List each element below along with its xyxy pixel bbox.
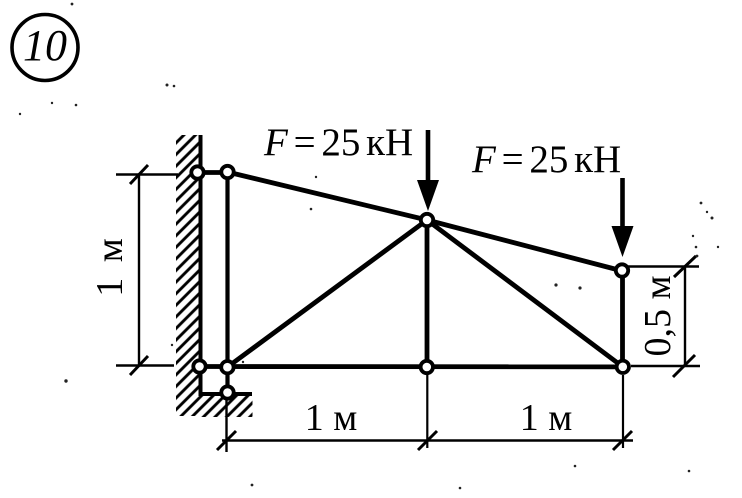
truss member: right vertical C-F (620, 271, 625, 367)
node B (421, 214, 433, 226)
svg-text:10: 10 (23, 21, 67, 70)
ledge hatch band (201, 394, 253, 417)
node A1 (191, 166, 203, 178)
truss member: top chord B-C (427, 220, 623, 271)
support link D2-D3 (225, 367, 229, 393)
svg-text:0,5 м: 0,5 м (637, 275, 679, 356)
dimension 0.5m right: extension top (622, 265, 699, 267)
dimension 1m left: dimension line (138, 175, 140, 366)
node D2 (221, 361, 233, 373)
wall edge line (199, 135, 203, 394)
force arrow F2 shaft (620, 178, 625, 232)
dimension bottom: extension from E (426, 375, 428, 448)
node D3 (221, 386, 233, 398)
node E (421, 361, 433, 373)
dimension 1m left: top tick (130, 165, 148, 184)
dimension 1m left: extension bottom (116, 364, 174, 366)
svg-text:F = 25 кН: F = 25 кН (263, 121, 413, 164)
dimension 0.5m right: extension bottom (631, 365, 700, 367)
dimension 1m left: extension top (116, 173, 178, 175)
truss member: top chord A2-B (228, 172, 428, 220)
truss member: middle vertical B-E (425, 220, 430, 367)
node F (617, 361, 629, 373)
wall hatch band (176, 135, 201, 416)
truss member: top link A1-A2 (197, 170, 228, 175)
ledge top line (199, 392, 253, 396)
truss member: left vertical A2-D2 (225, 172, 229, 367)
force arrow F1 head (417, 180, 439, 211)
force arrow F1 shaft (426, 130, 431, 185)
dimension 0.5m right: bottom tick (673, 355, 695, 377)
node C (616, 264, 628, 276)
problem number badge circle (12, 15, 78, 81)
node D1 (193, 360, 205, 372)
node A2 (221, 166, 233, 178)
dimension 0.5m right: dimension line (684, 267, 686, 368)
svg-text:F = 25 кН: F = 25 кН (471, 138, 621, 181)
dimension 0.5m right: top tick (674, 256, 696, 277)
svg-text:1 м: 1 м (305, 397, 358, 439)
dimension bottom: dimension line (222, 439, 633, 442)
svg-text:1 м: 1 м (89, 238, 131, 297)
dimension 1m left: bottom tick (130, 356, 148, 375)
truss member: diagonal B-F (427, 220, 623, 367)
svg-text:1 м: 1 м (520, 397, 573, 439)
force arrow F2 head (612, 226, 634, 257)
dimension bottom: extension from support (225, 396, 227, 452)
dimension bottom: tick middle (418, 431, 437, 450)
dimension bottom: extension from F (622, 375, 624, 448)
truss member: diagonal D2-B (228, 220, 428, 367)
truss member: bottom chord (199, 364, 623, 369)
dimension bottom: tick right (613, 431, 632, 450)
dimension bottom: tick left (217, 431, 236, 450)
